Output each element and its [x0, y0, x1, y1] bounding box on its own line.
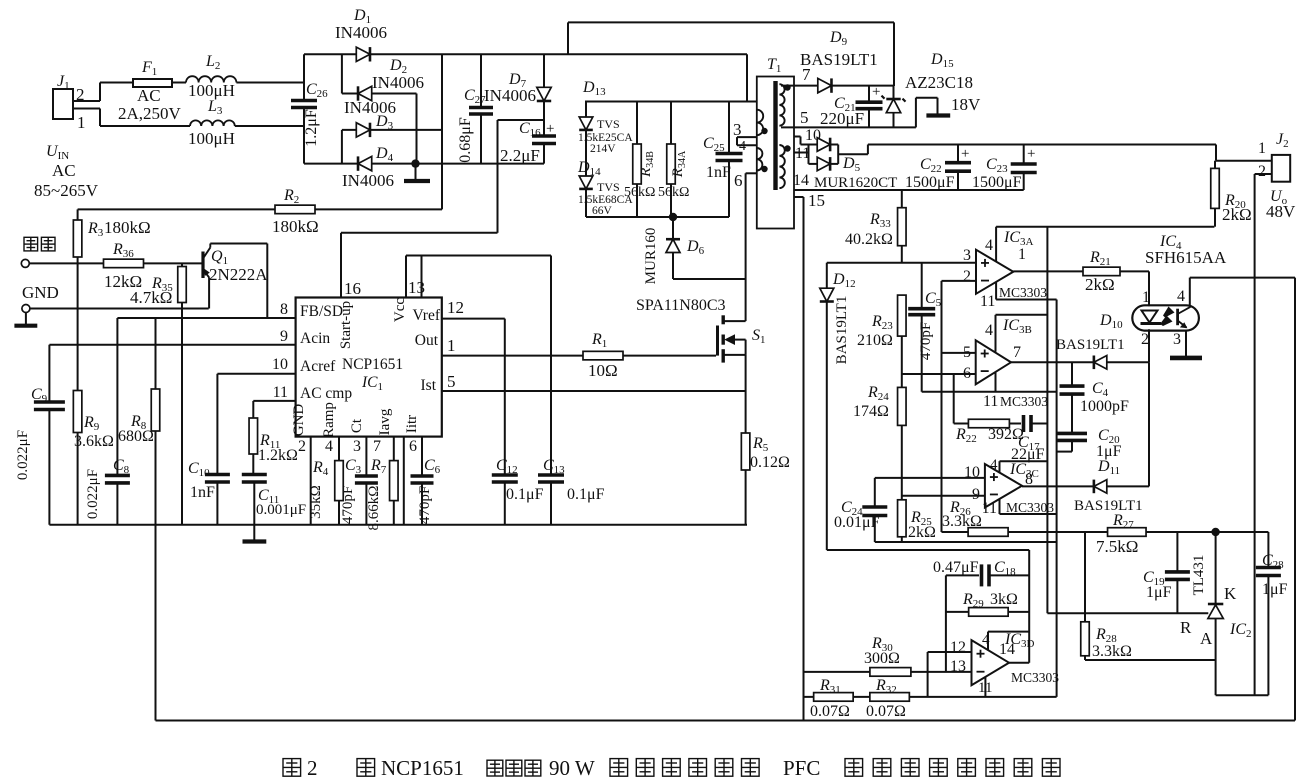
- svg-text:AC: AC: [52, 161, 76, 180]
- wire ref line: [1047, 612, 1208, 614]
- wire pin14 rail: [793, 172, 1024, 190]
- diode D6: [643, 217, 705, 284]
- terminal GND: [22, 283, 209, 313]
- T1 polarity dots: [761, 84, 790, 172]
- resistor R25: [898, 500, 936, 542]
- svg-text:+: +: [961, 146, 969, 162]
- svg-text:1μF: 1μF: [1146, 584, 1172, 601]
- wire D2 to bottom: [416, 94, 418, 164]
- svg-text:2: 2: [1258, 163, 1266, 180]
- svg-text:210Ω: 210Ω: [857, 332, 893, 349]
- diode D2: [358, 57, 424, 101]
- diode D15 zener: [882, 51, 974, 127]
- svg-text:R: R: [1180, 618, 1192, 637]
- svg-text:1nF: 1nF: [706, 164, 731, 181]
- wire IC3C pin11: [1000, 499, 1057, 514]
- svg-text:48V: 48V: [1266, 202, 1296, 221]
- svg-text:3.3kΩ: 3.3kΩ: [942, 513, 982, 530]
- svg-text:+: +: [546, 121, 554, 137]
- junction R27 out: [1211, 528, 1219, 536]
- svg-text:470pF: 470pF: [918, 322, 934, 360]
- svg-text:470pF: 470pF: [340, 486, 356, 524]
- node Uo 48V: [1266, 188, 1296, 221]
- svg-text:174Ω: 174Ω: [853, 403, 889, 420]
- svg-text:300Ω: 300Ω: [864, 650, 900, 667]
- capacitor C28: [1256, 532, 1288, 695]
- ground GND terminal: [14, 313, 37, 326]
- diode D4: [342, 145, 394, 190]
- svg-text:14: 14: [793, 172, 809, 189]
- transformer core: [773, 81, 777, 190]
- wire IC3D pin11: [984, 677, 986, 697]
- wire pin2 gnd: [298, 437, 311, 525]
- op-amp U IC3A: [963, 229, 1047, 310]
- wire D2 branch: [342, 54, 417, 93]
- wire anode line: [1085, 660, 1268, 695]
- svg-text:Start-up: Start-up: [338, 301, 354, 349]
- diode D5 pair: [809, 138, 898, 191]
- svg-text:4: 4: [985, 322, 993, 339]
- svg-text:MC3303: MC3303: [999, 285, 1047, 300]
- svg-text:AC cmp: AC cmp: [300, 385, 352, 402]
- capacitor C27: [457, 54, 493, 163]
- wire supply branch: [1046, 227, 1048, 614]
- capacitor C4: [1060, 362, 1130, 433]
- wire J1 to L3: [100, 125, 190, 127]
- wire IC3A pin11: [996, 282, 1057, 299]
- IC1 pin texts left: [272, 301, 352, 402]
- svg-text:3kΩ: 3kΩ: [990, 591, 1018, 608]
- wire snubber top: [585, 101, 747, 103]
- op-amp U2 IC2 TL431: [1180, 532, 1252, 660]
- svg-text:10: 10: [272, 356, 288, 373]
- svg-text:1: 1: [1142, 289, 1150, 306]
- svg-text:NCP1651: NCP1651: [381, 756, 464, 780]
- ground C11: [243, 539, 267, 543]
- resistor R33: [845, 190, 906, 263]
- fuse F1: [118, 59, 182, 123]
- resistor R34B: [624, 102, 656, 218]
- svg-text:1: 1: [77, 113, 86, 132]
- svg-text:9: 9: [280, 328, 288, 345]
- wire fb left: [945, 575, 947, 672]
- inductor L2: [186, 53, 236, 100]
- diode D9: [800, 29, 878, 93]
- svg-text:1: 1: [1018, 246, 1026, 263]
- svg-text:MUR1620CT: MUR1620CT: [814, 175, 897, 191]
- svg-text:Iitr: Iitr: [404, 415, 420, 433]
- op-amp U IC3D: [950, 631, 1059, 696]
- wire pin8 net: [117, 317, 295, 319]
- svg-text:3: 3: [353, 438, 361, 455]
- svg-text:A: A: [1200, 629, 1213, 648]
- svg-text:IN4006: IN4006: [372, 73, 424, 92]
- svg-text:4: 4: [985, 237, 993, 254]
- svg-text:MC3303: MC3303: [1006, 500, 1054, 515]
- wire IC3C pin4: [990, 457, 1047, 473]
- wire fb right: [1028, 550, 1030, 663]
- wire agnd line: [922, 391, 1057, 393]
- svg-text:180kΩ: 180kΩ: [272, 217, 319, 236]
- wire pin10 net: [217, 374, 295, 475]
- wire pin11: [794, 145, 810, 162]
- svg-text:7: 7: [1013, 344, 1021, 361]
- svg-text:4.7kΩ: 4.7kΩ: [130, 288, 172, 307]
- svg-text:2kΩ: 2kΩ: [908, 524, 936, 541]
- svg-text:2: 2: [76, 85, 85, 104]
- wire snubber bottom: [586, 216, 729, 218]
- svg-text:56kΩ: 56kΩ: [658, 185, 689, 200]
- svg-text:0.47μF: 0.47μF: [933, 559, 979, 576]
- wire pin1 out: [442, 336, 583, 356]
- svg-text:2: 2: [1141, 331, 1149, 348]
- resistor R9: [73, 391, 114, 525]
- resistor R22 capacitor C17: [954, 374, 1048, 463]
- capacitor C8: [85, 318, 130, 525]
- svg-text:7.5kΩ: 7.5kΩ: [1096, 537, 1138, 556]
- svg-text:MUR160: MUR160: [643, 228, 659, 285]
- wire opto pin4: [1190, 278, 1295, 306]
- capacitor C23: [972, 145, 1037, 192]
- wire D5 output: [838, 145, 868, 155]
- resistor R1: [583, 331, 716, 380]
- capacitor C12: [492, 319, 544, 525]
- resistor R4: [308, 437, 343, 525]
- svg-text:SPA11N80C3: SPA11N80C3: [636, 297, 726, 314]
- svg-text:40.2kΩ: 40.2kΩ: [845, 231, 893, 248]
- transistor Q1: [203, 244, 268, 319]
- wire IC3C pin10: [875, 477, 985, 479]
- svg-text:4: 4: [325, 438, 333, 455]
- svg-text:10Ω: 10Ω: [588, 361, 618, 380]
- T1 secondary winding upper: [779, 84, 784, 125]
- transistor Q S1 MOSFET: [636, 297, 766, 363]
- svg-text:1.2kΩ: 1.2kΩ: [258, 447, 298, 464]
- svg-text:AC: AC: [137, 86, 161, 105]
- capacitor C16: [500, 120, 556, 165]
- diode D14: [577, 159, 633, 217]
- resistor R28: [1081, 532, 1132, 660]
- pin 16 label: [344, 279, 361, 298]
- svg-text:2kΩ: 2kΩ: [1085, 275, 1115, 294]
- resistor R8: [118, 318, 160, 525]
- svg-text:7: 7: [373, 438, 381, 455]
- terminal shutdown: [21, 237, 103, 267]
- T1 secondary winding lower: [779, 145, 784, 188]
- svg-text:680Ω: 680Ω: [118, 428, 154, 445]
- resistor R29: [946, 591, 1029, 616]
- svg-text:1.2μF: 1.2μF: [303, 109, 320, 147]
- capacitor C11: [242, 475, 306, 542]
- svg-text:3.6kΩ: 3.6kΩ: [74, 433, 114, 450]
- svg-text:1: 1: [1258, 140, 1266, 157]
- capacitor C18: [933, 559, 1029, 586]
- svg-text:Ramp: Ramp: [321, 402, 337, 438]
- resistor R32: [866, 677, 909, 720]
- resistor R11: [249, 418, 298, 475]
- wire opto pin3 gnd: [1170, 331, 1202, 358]
- svg-text:1: 1: [447, 336, 456, 355]
- svg-text:11: 11: [983, 393, 998, 410]
- wire IC3A pin2: [942, 280, 977, 282]
- svg-text:1μF: 1μF: [1262, 581, 1288, 598]
- wire output rail: [868, 144, 1216, 146]
- svg-text:0.12Ω: 0.12Ω: [750, 454, 790, 471]
- svg-text:BAS19LT1: BAS19LT1: [1056, 337, 1125, 353]
- svg-text:3: 3: [1173, 331, 1181, 348]
- wire agnd branch: [1056, 300, 1058, 697]
- resistor R26: [942, 499, 1108, 536]
- svg-text:3: 3: [733, 120, 742, 139]
- svg-text:4: 4: [990, 457, 998, 473]
- svg-text:Acref: Acref: [300, 358, 336, 375]
- svg-text:SFH615AA: SFH615AA: [1145, 248, 1227, 267]
- capacitor C24: [834, 478, 887, 542]
- svg-text:12: 12: [950, 639, 966, 656]
- svg-text:BAS19LT1: BAS19LT1: [834, 296, 850, 365]
- svg-text:Ist: Ist: [421, 377, 437, 394]
- connector J2: [1255, 131, 1291, 182]
- svg-text:5: 5: [800, 108, 809, 127]
- resistor R7: [366, 437, 398, 531]
- diode D13: [578, 79, 633, 177]
- svg-text:TL431: TL431: [1191, 555, 1207, 596]
- svg-text:Out: Out: [415, 332, 439, 349]
- resistor R23: [857, 295, 906, 387]
- svg-text:FB/SD: FB/SD: [300, 303, 343, 320]
- wire vcc top edge: [996, 226, 1214, 228]
- wire fb line: [827, 549, 1029, 551]
- svg-text:4: 4: [1177, 288, 1185, 305]
- svg-text:0.68μF: 0.68μF: [457, 117, 474, 163]
- capacitor C19: [1143, 532, 1190, 613]
- resistor R27: [1096, 512, 1268, 556]
- svg-text:66V: 66V: [592, 205, 613, 217]
- resistor R5: [741, 391, 790, 525]
- capacitor C25: [703, 102, 743, 218]
- svg-text:2: 2: [298, 438, 306, 455]
- svg-text:3.3kΩ: 3.3kΩ: [1092, 643, 1132, 660]
- svg-text:16: 16: [344, 279, 361, 298]
- wire pin9 net: [49, 344, 295, 346]
- svg-text:0.1μF: 0.1μF: [506, 486, 544, 503]
- svg-text:0.022μF: 0.022μF: [85, 469, 101, 519]
- svg-text:+: +: [1027, 146, 1035, 162]
- connector J1: [53, 73, 100, 132]
- wire bridge bottom rail: [304, 163, 544, 165]
- svg-text:Ct: Ct: [349, 418, 365, 433]
- capacitor C10: [188, 460, 230, 525]
- resistor R3: [73, 209, 150, 390]
- wire pin12 vref: [442, 298, 505, 319]
- wire D6 to drain: [673, 279, 746, 321]
- wire error line: [827, 262, 976, 264]
- svg-text:0.07Ω: 0.07Ω: [866, 703, 906, 720]
- T1 pin 6: [734, 171, 757, 279]
- svg-text:13: 13: [408, 278, 425, 297]
- capacitor C5: [908, 263, 941, 392]
- svg-text:+: +: [872, 84, 880, 100]
- wire bridge top rail: [304, 53, 442, 55]
- svg-text:3: 3: [963, 247, 971, 264]
- svg-text:11: 11: [982, 500, 997, 517]
- wire IC3B pin4: [985, 315, 1047, 352]
- op-amp U IC3C: [964, 461, 1054, 517]
- svg-text:6: 6: [734, 171, 743, 190]
- wire IC3D pin12: [928, 652, 972, 697]
- svg-text:2N222A: 2N222A: [209, 265, 268, 284]
- wire bottom bus: [49, 524, 747, 526]
- inductor L3: [188, 98, 235, 148]
- wire pin15: [794, 191, 825, 721]
- svg-text:8: 8: [280, 301, 288, 318]
- wire IC3C pin9: [902, 495, 985, 497]
- wire opto led low: [1148, 362, 1150, 486]
- T1 primary winding upper: [757, 110, 763, 136]
- svg-text:Vref: Vref: [413, 307, 441, 324]
- svg-text:IN4006: IN4006: [344, 98, 396, 117]
- svg-text:220μF: 220μF: [820, 109, 864, 128]
- diode D10: [1011, 312, 1149, 369]
- capacitor C22: [905, 145, 971, 192]
- resistor R2: [78, 187, 442, 236]
- capacitor C13: [538, 256, 605, 525]
- svg-text:TVS: TVS: [597, 180, 620, 194]
- svg-text:1500μF: 1500μF: [972, 174, 1022, 191]
- svg-text:0.1μF: 0.1μF: [567, 486, 605, 503]
- svg-text:214V: 214V: [590, 143, 616, 155]
- wire startup: [341, 120, 544, 298]
- svg-text:BAS19LT1: BAS19LT1: [800, 50, 878, 69]
- svg-text:PFC: PFC: [783, 756, 820, 780]
- wire IC3B pin6: [902, 373, 976, 375]
- svg-text:9: 9: [972, 486, 980, 503]
- diode D3: [344, 98, 396, 137]
- resistor R24: [853, 384, 906, 500]
- svg-text:11: 11: [273, 384, 288, 401]
- svg-text:MC3303: MC3303: [1000, 394, 1048, 409]
- capacitor C3: [340, 437, 378, 525]
- resistor R35: [130, 263, 186, 524]
- svg-text:12: 12: [447, 298, 464, 317]
- wire pin5: [781, 108, 916, 127]
- T1 pins 3 4: [733, 120, 757, 154]
- wire J1 to F1: [100, 83, 133, 127]
- svg-text:0.07Ω: 0.07Ω: [810, 703, 850, 720]
- wire rail to T1: [568, 54, 757, 101]
- wire pin7: [781, 65, 894, 86]
- caption: [283, 756, 1060, 780]
- capacitor C20: [1057, 427, 1122, 460]
- svg-text:Acin: Acin: [300, 330, 330, 347]
- junction snubber: [669, 213, 677, 221]
- svg-text:470pF: 470pF: [417, 486, 433, 524]
- svg-text:MC3303: MC3303: [1011, 670, 1059, 685]
- diode D11: [1022, 458, 1149, 514]
- resistor R30: [804, 635, 972, 676]
- svg-text:IN4006: IN4006: [342, 171, 394, 190]
- svg-text:2: 2: [307, 756, 318, 780]
- svg-text:11: 11: [980, 293, 995, 310]
- svg-text:TVS: TVS: [597, 117, 620, 131]
- wire pin iavg extra: [403, 437, 405, 525]
- ground bridge: [404, 164, 430, 181]
- wire IC3D out: [1009, 662, 1029, 664]
- node UIN labels: [34, 143, 99, 200]
- wire IC3B pin5: [942, 352, 976, 354]
- wire bridge output: [441, 54, 443, 209]
- svg-text:2: 2: [963, 268, 971, 285]
- svg-text:14: 14: [999, 641, 1015, 658]
- wire IC3D pin4: [982, 632, 1029, 651]
- svg-text:NCP1651: NCP1651: [342, 356, 403, 373]
- junction bridge ground: [411, 159, 419, 167]
- svg-text:100μH: 100μH: [188, 129, 235, 148]
- svg-text:15: 15: [808, 191, 825, 210]
- svg-text:1500μF: 1500μF: [905, 174, 955, 191]
- wire 18V ref: [916, 95, 981, 127]
- op-amp U1 IC1 NCP1651 box: [296, 298, 442, 437]
- wire sense bus: [804, 696, 1057, 698]
- svg-text:Iavg: Iavg: [377, 408, 393, 435]
- svg-text:K: K: [1224, 584, 1237, 603]
- svg-text:2.2μF: 2.2μF: [500, 146, 540, 165]
- svg-text:0.022μF: 0.022μF: [15, 430, 31, 480]
- svg-text:IN4006: IN4006: [335, 23, 387, 42]
- svg-text:0.01μF: 0.01μF: [834, 514, 880, 531]
- capacitor C26: [291, 54, 328, 163]
- wire S1 source: [745, 355, 747, 391]
- svg-text:2kΩ: 2kΩ: [1222, 205, 1252, 224]
- IC1 inner texts: [291, 298, 441, 438]
- wire L3 to C26: [235, 125, 304, 127]
- svg-text:GND: GND: [291, 404, 307, 437]
- svg-text:0.001μF: 0.001μF: [256, 502, 306, 518]
- svg-text:BAS19LT1: BAS19LT1: [1074, 498, 1143, 514]
- diode D12: [820, 263, 856, 550]
- wire pin13 vcc: [406, 256, 551, 298]
- capacitor C9: [15, 345, 65, 525]
- resistor R34A: [658, 102, 689, 218]
- wire J2 return: [1254, 174, 1256, 695]
- svg-text:AZ23C18: AZ23C18: [905, 73, 973, 92]
- svg-text:4: 4: [982, 632, 990, 648]
- wire to J2: [1216, 140, 1272, 161]
- svg-text:180kΩ: 180kΩ: [104, 218, 151, 237]
- capacitor C6: [409, 437, 441, 525]
- wire pin11 net: [253, 401, 295, 418]
- wire IC3B pin11: [995, 372, 997, 391]
- resistor R21: [1013, 249, 1149, 294]
- resistor R36: [104, 241, 202, 291]
- svg-text:1000pF: 1000pF: [1080, 398, 1129, 415]
- wire L2 to C26: [236, 82, 304, 84]
- T1 primary winding lower: [757, 148, 763, 171]
- resistor R31: [810, 677, 853, 720]
- svg-text:5: 5: [447, 372, 456, 391]
- transformer T1 outline: [757, 56, 794, 229]
- capacitor C21: [820, 84, 883, 128]
- resistor R20: [1211, 161, 1252, 227]
- svg-text:1nF: 1nF: [190, 484, 215, 501]
- wire dc rail: [442, 22, 894, 86]
- diode D1: [335, 7, 387, 62]
- svg-text:90 W: 90 W: [549, 756, 595, 780]
- wire opto in: [1148, 271, 1150, 306]
- op-amp U IC4 SFH615AA opto: [1132, 233, 1227, 348]
- svg-text:GND: GND: [22, 283, 59, 302]
- wire F1 to L2: [172, 82, 186, 84]
